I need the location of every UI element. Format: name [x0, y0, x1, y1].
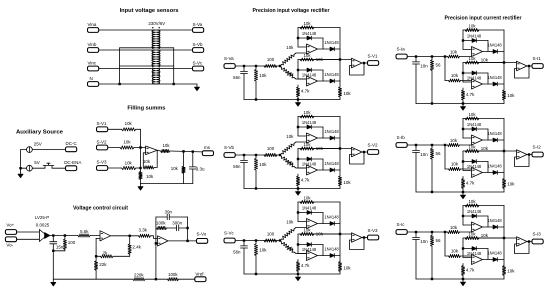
- resistor 10k U-S-Icb feedback: [465, 236, 479, 239]
- svg-text:1N4148: 1N4148: [302, 72, 317, 77]
- resistor 10k to upper rectifier S-Vb: [282, 144, 295, 154]
- wire U-S-Vcb clamp down: [322, 245, 324, 256]
- wire U-S-Iba inverting input: [462, 119, 464, 139]
- wire S-Va input: [236, 65, 281, 67]
- wire to op-amp U5: [90, 235, 100, 237]
- svg-text:1N4148: 1N4148: [467, 122, 482, 127]
- resistor 10k U-S-Vaa feedback: [300, 26, 314, 29]
- op-amp U-S-Vbb: [307, 165, 318, 175]
- svg-text:10k: 10k: [450, 49, 458, 54]
- resistor 4.7k S-Va: [297, 85, 299, 87]
- wire U-S-Ibb clamp down: [487, 162, 489, 173]
- svg-text:10k: 10k: [343, 265, 351, 270]
- svg-text:S-Vc: S-Vc: [193, 61, 204, 66]
- svg-text:S-Ic: S-Ic: [397, 222, 406, 227]
- op-amp U-S-Vab: [307, 76, 318, 86]
- wire summing bus: [140, 129, 142, 171]
- wire switch to DC-ENA: [52, 167, 66, 169]
- svg-text:10k: 10k: [451, 249, 459, 254]
- resistor 10k U4 feedback: [143, 166, 154, 169]
- svg-text:10k: 10k: [286, 220, 294, 225]
- resistor 10k summing to ground: [139, 172, 142, 180]
- svg-text:1N4148: 1N4148: [467, 251, 482, 256]
- wire output line S-Vc: [314, 233, 340, 235]
- diode 1N4148 U-S-Iaa output: [493, 50, 497, 54]
- wire to ms terminal: [170, 150, 203, 153]
- terminal DC-C: [66, 147, 77, 152]
- diode 1N4148 U-S-Ibb clamp: [463, 161, 488, 163]
- wire U5 feedback: [96, 237, 100, 239]
- wire U-S-Vbb inverting input: [297, 149, 299, 169]
- wire T3 secondary top to S-Vc: [157, 68, 193, 70]
- diode 1N4148 U-S-Vab clamp: [298, 69, 323, 71]
- svg-text:4.7k: 4.7k: [466, 181, 475, 186]
- resistor 10k to lower rectifier S-Vc: [282, 242, 295, 252]
- wire U5 output: [111, 235, 139, 237]
- resistor 10k U-S-Vab feedback: [300, 58, 314, 61]
- svg-text:10k: 10k: [146, 174, 154, 179]
- wire V2 to switch: [32, 167, 45, 169]
- svg-text:2.4k: 2.4k: [132, 245, 141, 250]
- terminal S-Ia: [396, 54, 407, 59]
- op-amp buffer S-Ic: [504, 237, 517, 239]
- resistor 10k U-S-Iba feedback: [465, 117, 479, 120]
- wire U-S-Vca clamp down: [322, 213, 324, 224]
- switch S1 pushbutton: [44, 166, 46, 168]
- terminal S-Va: [224, 64, 235, 69]
- svg-text:56: 56: [436, 151, 442, 156]
- svg-text:S-Ib: S-Ib: [397, 135, 406, 140]
- svg-text:4.7k: 4.7k: [466, 268, 475, 273]
- wire V1 left: [21, 149, 27, 151]
- svg-text:S-V1: S-V1: [97, 121, 108, 126]
- terminal S-I2: [532, 152, 543, 157]
- svg-text:10k: 10k: [286, 134, 294, 139]
- svg-text:10k: 10k: [303, 110, 311, 115]
- svg-text:1N4148: 1N4148: [487, 164, 502, 169]
- resistor 56 input S-Ib: [431, 146, 433, 148]
- svg-text:ms: ms: [204, 145, 211, 150]
- wire U-S-Vab inverting input: [297, 60, 299, 80]
- terminal Vinc: [88, 66, 99, 71]
- svg-text:22k: 22k: [99, 262, 107, 267]
- svg-text:2k: 2k: [103, 250, 108, 255]
- terminal ms: [202, 151, 213, 156]
- wire output line S-Ic: [477, 237, 504, 239]
- diode 1N4148 U-S-Iab output: [493, 82, 497, 86]
- svg-text:10k: 10k: [303, 195, 311, 200]
- resistor 10k from S-V3: [108, 167, 122, 169]
- wire buffer feedback S-Vc: [350, 238, 365, 250]
- svg-text:220k: 220k: [134, 272, 144, 277]
- wire secondary common bus: [173, 48, 175, 84]
- svg-text:100k: 100k: [156, 220, 166, 225]
- wire U-S-Ibb top: [463, 150, 504, 152]
- svg-text:Auxiliary Source: Auxiliary Source: [16, 130, 64, 136]
- ground S-Vc rectifier: [297, 274, 299, 277]
- wire S-Vc input: [236, 240, 281, 242]
- svg-text:1N4148: 1N4148: [324, 247, 339, 252]
- wire U-S-Vaa output: [318, 48, 340, 50]
- resistor 10k U-S-Iaa feedback: [465, 28, 479, 31]
- resistor 10k U-S-Ica feedback: [465, 204, 479, 207]
- terminal S-V3: [97, 166, 108, 171]
- svg-text:3.3k: 3.3k: [139, 228, 148, 233]
- svg-text:56: 56: [436, 238, 442, 243]
- svg-text:100: 100: [267, 57, 275, 62]
- op-amp U5: [100, 231, 111, 241]
- wire T1 secondary top to S-Va: [157, 29, 193, 31]
- svg-text:56: 56: [436, 62, 442, 67]
- wire buffer feedback S-Ib: [515, 155, 530, 167]
- svg-text:10k: 10k: [259, 73, 267, 78]
- wire Vo+ to sensor: [17, 231, 40, 233]
- wire U-S-Icb inverting input: [462, 238, 464, 258]
- resistor 10k input S-Va: [255, 67, 257, 69]
- terminal S-V1: [368, 61, 379, 66]
- svg-text:1N4148: 1N4148: [302, 120, 317, 125]
- wire aux ground bus: [20, 150, 22, 171]
- resistor 10k to upper rectifier S-Ic: [448, 230, 460, 233]
- svg-text:Input voltage sensors: Input voltage sensors: [120, 8, 180, 14]
- wire output line S-Ib: [477, 150, 504, 152]
- svg-text:1N4148: 1N4148: [302, 161, 317, 166]
- svg-text:5.6k: 5.6k: [80, 229, 89, 234]
- wire buffer output S-Vc: [362, 237, 368, 239]
- wire U-S-Vbb top: [298, 148, 340, 150]
- svg-text:300n: 300n: [172, 220, 182, 225]
- capacitor 56n S-Vb: [243, 156, 245, 160]
- svg-text:10k: 10k: [468, 23, 476, 28]
- wire ground rail S-Ib: [416, 191, 504, 193]
- op-amp buffer S-Va: [340, 59, 352, 61]
- terminal S-I3: [532, 239, 543, 244]
- wire U-S-Vca inverting input: [297, 202, 299, 222]
- resistor 10k input S-Vb: [255, 156, 257, 158]
- ground voltage control: [52, 279, 54, 282]
- svg-text:56n: 56n: [233, 164, 241, 169]
- resistor 10k U-S-Vba feedback: [300, 115, 314, 118]
- wire U-S-Icb output: [483, 259, 504, 261]
- resistor 220k: [133, 278, 145, 281]
- svg-text:1N4148: 1N4148: [324, 215, 339, 220]
- op-amp U-S-Ica: [472, 222, 483, 232]
- resistor 4.7k S-Vc: [297, 260, 299, 262]
- svg-text:10n: 10n: [420, 152, 428, 157]
- svg-text:10k: 10k: [316, 146, 324, 151]
- svg-text:1N4148: 1N4148: [324, 40, 339, 45]
- source V1 25V: [27, 147, 33, 153]
- wire buffer feedback S-Ic: [515, 242, 530, 254]
- svg-text:4.7k: 4.7k: [301, 89, 310, 94]
- wire U-S-Vca output: [318, 223, 340, 225]
- svg-text:Voltage control circuit: Voltage control circuit: [73, 206, 128, 212]
- svg-text:56n: 56n: [233, 250, 241, 255]
- ground S-Ia rectifier: [462, 104, 464, 107]
- resistor 10k U-S-Vcb feedback: [300, 232, 314, 235]
- wire 220k to 100k: [145, 278, 168, 280]
- terminal S-V3: [368, 235, 379, 240]
- wire output line S-Ia: [477, 62, 504, 64]
- wire U-S-Vba clamp down: [322, 127, 324, 138]
- svg-text:10k: 10k: [303, 142, 311, 147]
- wire U-S-Vab clamp down: [322, 70, 324, 81]
- svg-text:Precision input current rectif: Precision input current rectifier: [445, 15, 523, 21]
- diode 1N4148 U-S-Vcb output: [330, 254, 334, 258]
- op-amp U-S-Icb: [472, 255, 483, 265]
- svg-text:1N4148: 1N4148: [487, 131, 502, 136]
- svg-text:10k: 10k: [303, 53, 311, 58]
- wire to Vref: [179, 278, 195, 280]
- terminal Vinb: [88, 48, 99, 53]
- svg-text:S-Vo: S-Vo: [197, 231, 207, 236]
- wire sensor output: [50, 235, 78, 237]
- svg-text:10k: 10k: [343, 91, 351, 96]
- svg-text:0.0025: 0.0025: [36, 223, 50, 228]
- terminal S-V2: [368, 150, 379, 155]
- wire U-S-Iab clamp down: [487, 73, 489, 84]
- wire U-S-Iba clamp down: [487, 129, 489, 140]
- wire U-S-Iaa output: [483, 51, 504, 53]
- op-amp U-S-Iaa: [472, 47, 483, 57]
- terminal S-V1: [97, 127, 108, 132]
- svg-text:1N4148: 1N4148: [302, 31, 317, 36]
- resistor 10k to lower rectifier S-Ia: [445, 80, 449, 82]
- wire feedback to output: [154, 166, 157, 168]
- resistor 100 input: [64, 236, 66, 240]
- wire output line S-Va: [314, 59, 340, 61]
- resistor 3.3k: [139, 234, 151, 237]
- svg-text:1N4148: 1N4148: [302, 205, 317, 210]
- svg-text:10k: 10k: [286, 45, 294, 50]
- svg-text:1N4148: 1N4148: [324, 129, 339, 134]
- wire S-Vb input: [236, 154, 281, 156]
- wire U-S-Vbb output: [318, 169, 340, 171]
- svg-text:10k: 10k: [451, 73, 459, 78]
- op-amp U-S-Ibb: [472, 168, 483, 178]
- resistor 10k from S-V2: [108, 147, 120, 149]
- diode 1N4148 U-S-Iaa clamp: [463, 40, 488, 42]
- wire 3.3k to U6: [151, 236, 158, 239]
- wire U-S-Iba output: [483, 139, 504, 141]
- resistor 10k output S-Va: [339, 28, 341, 88]
- svg-text:230V/6V: 230V/6V: [148, 21, 165, 26]
- terminal S-I1: [532, 64, 543, 69]
- terminal Vina: [88, 28, 99, 33]
- wire U-S-Iab top: [463, 62, 504, 64]
- ground S-Va rectifier: [297, 100, 299, 103]
- terminal Vo-: [5, 237, 16, 242]
- wire V2 left: [21, 167, 27, 169]
- resistor 100k bottom: [168, 278, 179, 281]
- resistor 10k output S-Vb: [339, 117, 341, 177]
- terminal Vo+: [5, 230, 16, 235]
- svg-text:10k: 10k: [316, 57, 324, 62]
- resistor 10k output: [157, 149, 161, 152]
- resistor 10k to upper rectifier S-Ib: [448, 143, 460, 146]
- svg-text:10k: 10k: [468, 112, 476, 117]
- svg-text:25V: 25V: [34, 142, 42, 147]
- capacitor 10n S-Ic: [415, 233, 417, 237]
- resistor 2.4k: [129, 236, 131, 244]
- wire U-S-Iaa inverting input: [462, 30, 464, 50]
- svg-text:N: N: [90, 76, 93, 81]
- svg-text:S-V3: S-V3: [97, 160, 108, 165]
- wire U-S-Vab output: [318, 80, 340, 82]
- svg-text:10k: 10k: [303, 227, 311, 232]
- svg-text:10k: 10k: [259, 162, 267, 167]
- wire U-S-Vcb output: [318, 255, 340, 257]
- svg-text:10k: 10k: [481, 233, 489, 238]
- resistor 10k U-S-Vca feedback: [300, 200, 314, 203]
- svg-text:10k: 10k: [303, 21, 311, 26]
- wire buffer feedback S-Vb: [350, 152, 365, 164]
- svg-text:S-V2: S-V2: [97, 139, 108, 144]
- svg-text:10k: 10k: [343, 180, 351, 185]
- source V2 5V: [27, 165, 33, 171]
- wire T2 secondary top to S-Vb: [157, 49, 193, 51]
- svg-text:100k: 100k: [168, 272, 178, 277]
- wire U-S-Iab inverting input: [462, 63, 464, 83]
- svg-text:1N4148: 1N4148: [487, 251, 502, 256]
- wire split down S-Ic: [444, 232, 446, 256]
- svg-text:Vina: Vina: [88, 22, 97, 27]
- wire U-S-Icb top: [463, 237, 504, 239]
- wire U-S-Vcb inverting input: [297, 234, 299, 254]
- resistor 2k: [101, 255, 114, 258]
- diode 1N4148 U-S-Vab output: [330, 79, 334, 83]
- svg-text:S-Vc: S-Vc: [224, 231, 235, 236]
- wire buffer output S-Vb: [362, 151, 368, 153]
- svg-text:10k: 10k: [468, 144, 476, 149]
- terminal S-Vb: [224, 153, 235, 158]
- svg-text:4.7k: 4.7k: [301, 263, 310, 268]
- svg-text:Vo-: Vo-: [6, 243, 13, 248]
- op-amp U-S-Iba: [472, 135, 483, 145]
- svg-text:3.3u: 3.3u: [196, 167, 205, 172]
- svg-text:10k: 10k: [286, 246, 294, 251]
- svg-text:S-Va: S-Va: [193, 22, 203, 27]
- svg-text:10k: 10k: [507, 268, 515, 273]
- op-amp buffer S-Ia: [504, 62, 517, 64]
- wire control ground rail: [53, 278, 133, 280]
- op-amp U-S-Vca: [307, 219, 318, 229]
- resistor 4.7k S-Ib: [462, 177, 464, 179]
- wire T1 primary bottom: [120, 47, 156, 49]
- resistor 10k output S-Ic: [503, 206, 505, 266]
- svg-text:10k: 10k: [316, 232, 324, 237]
- terminal S-Ib: [396, 143, 407, 148]
- terminal S-V2: [97, 145, 108, 150]
- resistor 100 S-Vc: [264, 239, 277, 242]
- ground S-Ic rectifier: [462, 279, 464, 282]
- wire sensor output down: [52, 236, 54, 242]
- diode 1N4148 U-S-Vaa output: [330, 47, 334, 51]
- svg-text:10k: 10k: [468, 199, 476, 204]
- wire resistor 100 return: [53, 250, 65, 252]
- svg-text:1N4148: 1N4148: [467, 33, 482, 38]
- terminal N: [88, 82, 99, 87]
- diode 1N4148 U-S-Icb clamp: [463, 248, 488, 250]
- resistor 4.7k S-Ia: [462, 88, 464, 90]
- svg-text:10k: 10k: [259, 248, 267, 253]
- diode 1N4148 U-S-Iba clamp: [463, 128, 488, 130]
- wire V1 to DC-C: [32, 149, 65, 151]
- diode 1N4148 U-S-Vca output: [330, 222, 334, 226]
- diode 1N4148 U-S-Vbb output: [330, 168, 334, 172]
- wire U-S-Vaa top: [298, 27, 340, 29]
- svg-text:1N4148: 1N4148: [467, 164, 482, 169]
- wire T1 secondary bottom: [157, 47, 174, 49]
- wire output line S-Vb: [314, 148, 340, 150]
- wire ground rail S-Ic: [416, 278, 504, 280]
- wire U-S-Vbb clamp down: [322, 159, 324, 170]
- op-amp U-S-Vba: [307, 133, 318, 143]
- svg-text:1N4148: 1N4148: [324, 161, 339, 166]
- resistor 10k filter: [183, 151, 185, 166]
- svg-text:4.7k: 4.7k: [466, 92, 475, 97]
- resistor 22k: [95, 256, 97, 261]
- svg-text:10n: 10n: [420, 63, 428, 68]
- svg-text:Vinb: Vinb: [88, 42, 97, 47]
- capacitor 15n: [50, 241, 57, 243]
- wire U-S-Icb clamp down: [487, 249, 489, 260]
- svg-text:10k: 10k: [143, 159, 151, 164]
- svg-text:1N4148: 1N4148: [302, 247, 317, 252]
- wire T2 primary bottom: [120, 65, 156, 67]
- wire U-S-Iaa clamp down: [487, 41, 489, 52]
- capacitor 56n S-Vc: [243, 242, 245, 246]
- transformer T2 230V/6V: [99, 49, 155, 51]
- svg-text:Precision input voltage rectif: Precision input voltage rectifier: [253, 8, 331, 14]
- capacitor 10n S-Ia: [415, 58, 417, 62]
- terminal S-Vc: [193, 66, 204, 71]
- svg-text:10k: 10k: [507, 181, 515, 186]
- wire split down S-Ia: [444, 57, 446, 81]
- node output filter: [182, 150, 184, 152]
- svg-text:39n: 39n: [165, 209, 173, 214]
- capacitor 39n feedback: [156, 216, 167, 218]
- resistor 10k output S-Vc: [339, 202, 341, 262]
- ground S-Ib rectifier: [462, 192, 464, 195]
- svg-text:10k: 10k: [125, 161, 133, 166]
- wire U-S-Iba top: [463, 118, 504, 120]
- wire U-S-Ica inverting input: [462, 206, 464, 226]
- resistor 10k U-S-Vbb feedback: [300, 147, 314, 150]
- resistor 10k to upper rectifier S-Va: [282, 55, 295, 65]
- wire U-S-Vaa clamp down: [322, 38, 324, 49]
- wire U-S-Ibb inverting input: [462, 151, 464, 171]
- transformer T1 230V/6V: [99, 29, 155, 31]
- resistor 100k feedback: [157, 226, 167, 229]
- wire ground rail S-Ia: [416, 103, 504, 105]
- transducer LV25-P: [39, 230, 46, 242]
- svg-text:S-V2: S-V2: [368, 142, 379, 147]
- svg-text:10k: 10k: [451, 162, 459, 167]
- resistor 4.7k S-Ic: [462, 264, 464, 266]
- svg-text:15n: 15n: [56, 244, 64, 249]
- diode 1N4148 U-S-Vca clamp: [298, 212, 323, 214]
- op-amp buffer S-Vc: [340, 233, 352, 235]
- resistor 56 input S-Ia: [431, 58, 433, 60]
- wire buffer output S-Ia: [527, 65, 532, 67]
- diode 1N4148 U-S-Ica output: [493, 225, 497, 229]
- resistor 10k to lower rectifier S-Ic: [445, 255, 449, 257]
- wire split down S-Ib: [444, 145, 446, 169]
- op-amp U4 summing: [146, 146, 158, 155]
- wire buffer output S-Ic: [527, 241, 532, 243]
- diode 1N4148 U-S-Vba output: [330, 136, 334, 140]
